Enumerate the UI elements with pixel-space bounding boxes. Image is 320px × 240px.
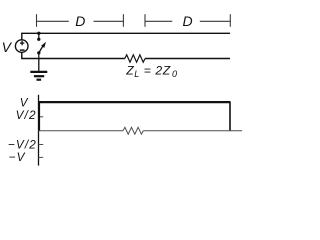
svg-text:D: D [183,13,193,29]
axis tick -V [39,156,44,158]
svg-text:V: V [2,39,13,55]
svg-text:V/2: V/2 [16,108,37,122]
axis tick -V/2 [39,144,44,146]
axis tick V/2 [39,116,44,118]
axis break zigzag [123,127,143,134]
resistor ZL (zigzag in bottom conductor) [125,55,145,62]
voltage source V1 [15,40,28,53]
time axis 0-line left part [39,130,124,132]
waveform V level (thick) [39,101,231,103]
graph y-axis [38,95,40,166]
wire bottom conductor (left part) [22,53,125,59]
waveform rising edge at t=0 [38,102,40,131]
svg-text:ZL = 2Z0: ZL = 2Z0 [125,64,177,80]
node junction dot on top wire [37,32,40,35]
svg-text:−V: −V [9,150,26,164]
svg-text:D: D [75,13,85,29]
wire bottom conductor (right part) [145,58,230,60]
dimension D second span [145,14,230,27]
waveform drop at right [229,102,231,131]
dimension D first span [37,14,124,27]
wire top conductor [22,33,230,39]
switch S1 [37,33,46,58]
ground [30,59,47,80]
time axis 0-line right part [143,130,242,132]
